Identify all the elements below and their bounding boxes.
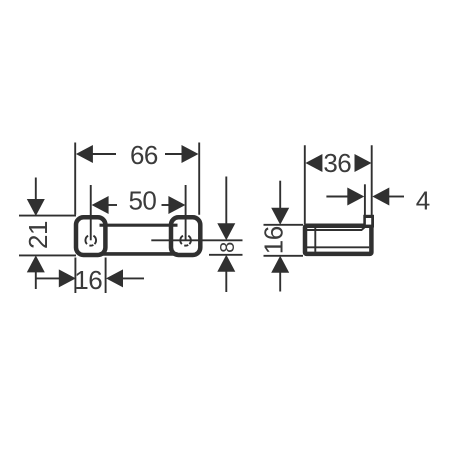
screw circle right center line xyxy=(185,185,187,240)
dim 16: left-pointing arrow xyxy=(106,269,123,287)
dim 16: right tail xyxy=(122,277,144,279)
dim 66: right tail xyxy=(165,153,183,155)
hook lip tab xyxy=(363,215,374,228)
dim 8: lower leader line xyxy=(225,270,227,292)
centerline through right block xyxy=(151,239,242,241)
svg-text:36: 36 xyxy=(323,148,351,178)
dim 16: extension line left xyxy=(74,258,76,294)
svg-text:16: 16 xyxy=(259,226,289,254)
dim 16 (side): lower leader line xyxy=(279,271,281,292)
svg-text:4: 4 xyxy=(416,186,430,216)
dim 66: left tail xyxy=(92,153,116,155)
svg-text:21: 21 xyxy=(23,221,53,249)
dim 21: top extension line xyxy=(19,215,76,217)
dim 21: up arrow xyxy=(27,255,45,272)
hook lip tab hole xyxy=(366,218,372,225)
dim 36: left arrow xyxy=(305,154,322,172)
screw circle left (dashed) xyxy=(85,236,96,246)
dim 4: extension line (lip left face) xyxy=(364,184,366,224)
dim 16: left tail xyxy=(36,277,60,279)
dim 36: extension line left xyxy=(304,145,306,224)
screw circle left center line xyxy=(90,185,92,240)
dim 16 (side): top extension line xyxy=(264,224,304,226)
dim 4: right-pointing arrow xyxy=(347,188,364,206)
dim 66: left arrow xyxy=(76,145,93,163)
dim 8: down arrow xyxy=(217,223,235,240)
dim 36: right arrow xyxy=(355,154,372,172)
dim 16: right-pointing arrow xyxy=(59,269,76,287)
dim 8: up arrow xyxy=(217,255,235,272)
dim 4: right tail xyxy=(388,196,404,198)
dim 36: extension line right xyxy=(371,145,373,215)
svg-text:50: 50 xyxy=(128,185,156,215)
dim 66: right arrow xyxy=(182,145,199,163)
dim 8: upper leader line xyxy=(225,177,227,226)
hook body outline xyxy=(305,226,371,254)
bar bottom edge xyxy=(100,252,178,256)
svg-text:16: 16 xyxy=(74,265,102,295)
dim 8: bottom extension line xyxy=(209,254,243,256)
dim 21: down arrow xyxy=(27,199,45,216)
dim 21: lower leader line xyxy=(35,271,37,289)
dim 66: extension line right xyxy=(198,143,200,215)
hook block left (rounded square) xyxy=(76,217,105,255)
svg-text:66: 66 xyxy=(130,140,158,170)
svg-text:8: 8 xyxy=(217,242,239,253)
hook block right (rounded square) xyxy=(171,217,200,255)
screw circle right (dashed) xyxy=(180,236,191,246)
dim 4: left-pointing arrow xyxy=(372,188,389,206)
dim 21: upper leader line xyxy=(35,178,37,201)
dim 16 (side): bottom extension line xyxy=(264,255,304,257)
dim 16: extension line right xyxy=(105,258,107,294)
dim 66: extension line left xyxy=(74,143,76,215)
inner top line with lip slope xyxy=(307,227,365,230)
dim 50: left tail xyxy=(108,204,117,206)
dim 50: left arrow xyxy=(92,196,109,214)
dim 16 (side): upper leader line xyxy=(279,181,281,210)
dim 4: left tail xyxy=(326,196,348,198)
dim 21: bottom extension line xyxy=(19,254,76,256)
dim 16 (side): up arrow xyxy=(271,256,289,273)
bar top edge xyxy=(100,224,178,227)
dim 50: right arrow xyxy=(168,196,185,214)
inner wall plate line xyxy=(314,228,316,252)
dim 16 (side): down arrow xyxy=(271,208,289,225)
dim 50: right tail xyxy=(162,204,170,206)
inner bottom line xyxy=(307,246,369,248)
